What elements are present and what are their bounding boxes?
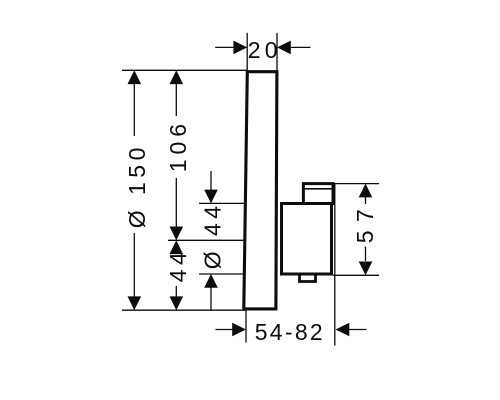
dimension 20 (top) [215, 46, 310, 48]
dim 57 arrow up (tip 183.6) [359, 184, 373, 198]
svg-text:57: 57 [352, 201, 378, 244]
extension tick mid (y=240 for 106/44) [168, 239, 246, 241]
dimension 44 (lower left) [175, 286, 177, 297]
dimension dia150 line [133, 78, 135, 300]
dim dia150 arrow down [128, 296, 142, 310]
dim dia44 arrow up (tip 274) [204, 274, 218, 288]
extension line 54-82 left [245, 310, 247, 342]
dim 44 arrow down (tip at 310.2) [170, 296, 184, 310]
svg-text:Ø 150: Ø 150 [124, 143, 150, 228]
notch inner line [303, 188, 333, 190]
dimension dia44 (body) [210, 171, 212, 310]
svg-text:54-82: 54-82 [255, 319, 325, 345]
dim 54-82 arrow right (tip 335.5) [336, 323, 350, 337]
dim 20 arrow left (tip 247.2) [233, 41, 247, 55]
dim 54-82 arrow left (tip 246) [232, 323, 246, 337]
bottom tab [300, 272, 316, 282]
dim 57 arrow down (tip 275.3) [359, 262, 373, 276]
dim 20 arrow right (tip 277) [277, 41, 291, 55]
extension line bottom (plate bottom, left side) [122, 309, 246, 311]
dim 44 arrow up (tip at 240.3) [170, 240, 184, 254]
svg-text:20: 20 [248, 37, 282, 63]
dim 106 arrow up [170, 70, 184, 84]
dimension 57 (right) [365, 197, 367, 261]
svg-text:Ø 44: Ø 44 [200, 201, 226, 269]
extension line 57 bottom [333, 274, 379, 276]
supply cap notch on body top [303, 184, 333, 204]
extension line 54-82 right (vertical at x=334.8) [334, 184, 336, 346]
dim dia150 arrow up [128, 70, 142, 84]
extension tick body bottom (for dia44) [199, 273, 245, 275]
body main rectangle [282, 204, 332, 275]
extension line 57 top [332, 183, 379, 185]
svg-text:44: 44 [165, 248, 191, 283]
extension line top (plate top, left side) [122, 69, 247, 71]
svg-text:106: 106 [165, 119, 191, 172]
dim dia44 arrow down (tip 203.4) [204, 190, 218, 204]
valve body [282, 184, 334, 282]
extension line 20 right [276, 33, 278, 71]
dim 106 arrow down [170, 227, 184, 241]
dimension 54-82 (bottom) [216, 329, 367, 331]
faceplate (side view) [244, 72, 277, 309]
extension tick body top (for dia44) [199, 202, 245, 204]
extension line 20 left [246, 33, 248, 71]
dimension 106 line [175, 78, 177, 233]
